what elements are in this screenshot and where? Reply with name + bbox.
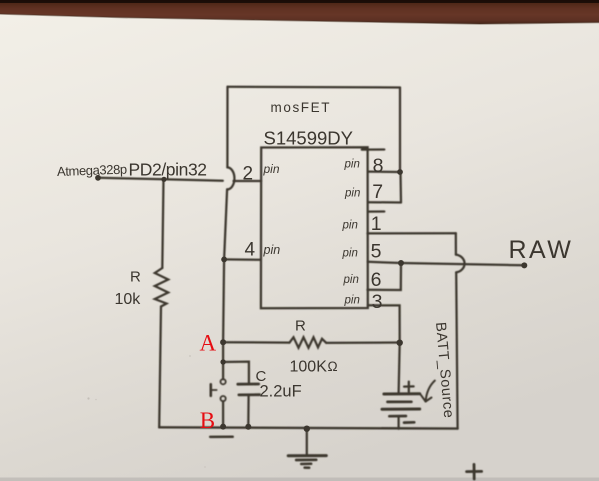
svg-text:2.2uF: 2.2uF bbox=[260, 383, 302, 401]
svg-text:pin: pin bbox=[343, 274, 359, 286]
svg-text:4: 4 bbox=[245, 240, 256, 261]
svg-text:1: 1 bbox=[371, 213, 382, 235]
svg-text:3: 3 bbox=[372, 291, 383, 313]
svg-text:S14599DY: S14599DY bbox=[264, 128, 353, 149]
svg-text:B: B bbox=[200, 408, 215, 433]
svg-text:A: A bbox=[200, 331, 217, 356]
svg-text:7: 7 bbox=[372, 181, 383, 203]
svg-text:PD2/pin32: PD2/pin32 bbox=[129, 160, 207, 180]
svg-text:pin: pin bbox=[344, 188, 360, 200]
svg-text:10k: 10k bbox=[115, 291, 142, 308]
svg-text:mosFET: mosFET bbox=[271, 100, 332, 115]
svg-text:RAW: RAW bbox=[509, 236, 574, 264]
svg-text:100K: 100K bbox=[290, 359, 328, 376]
svg-text:R: R bbox=[130, 269, 141, 286]
svg-text:Ω: Ω bbox=[328, 359, 338, 374]
svg-text:2: 2 bbox=[243, 164, 254, 185]
svg-text:pin: pin bbox=[344, 159, 360, 171]
svg-text:R: R bbox=[295, 318, 306, 335]
svg-text:pin: pin bbox=[342, 248, 358, 260]
svg-text:8: 8 bbox=[373, 155, 384, 177]
svg-text:pin: pin bbox=[263, 243, 281, 257]
svg-text:Atmega328p: Atmega328p bbox=[57, 162, 127, 179]
svg-text:pin: pin bbox=[342, 220, 358, 232]
svg-text:6: 6 bbox=[371, 269, 382, 291]
svg-text:pin: pin bbox=[344, 295, 360, 307]
svg-text:5: 5 bbox=[371, 240, 382, 262]
svg-text:pin: pin bbox=[263, 162, 280, 176]
